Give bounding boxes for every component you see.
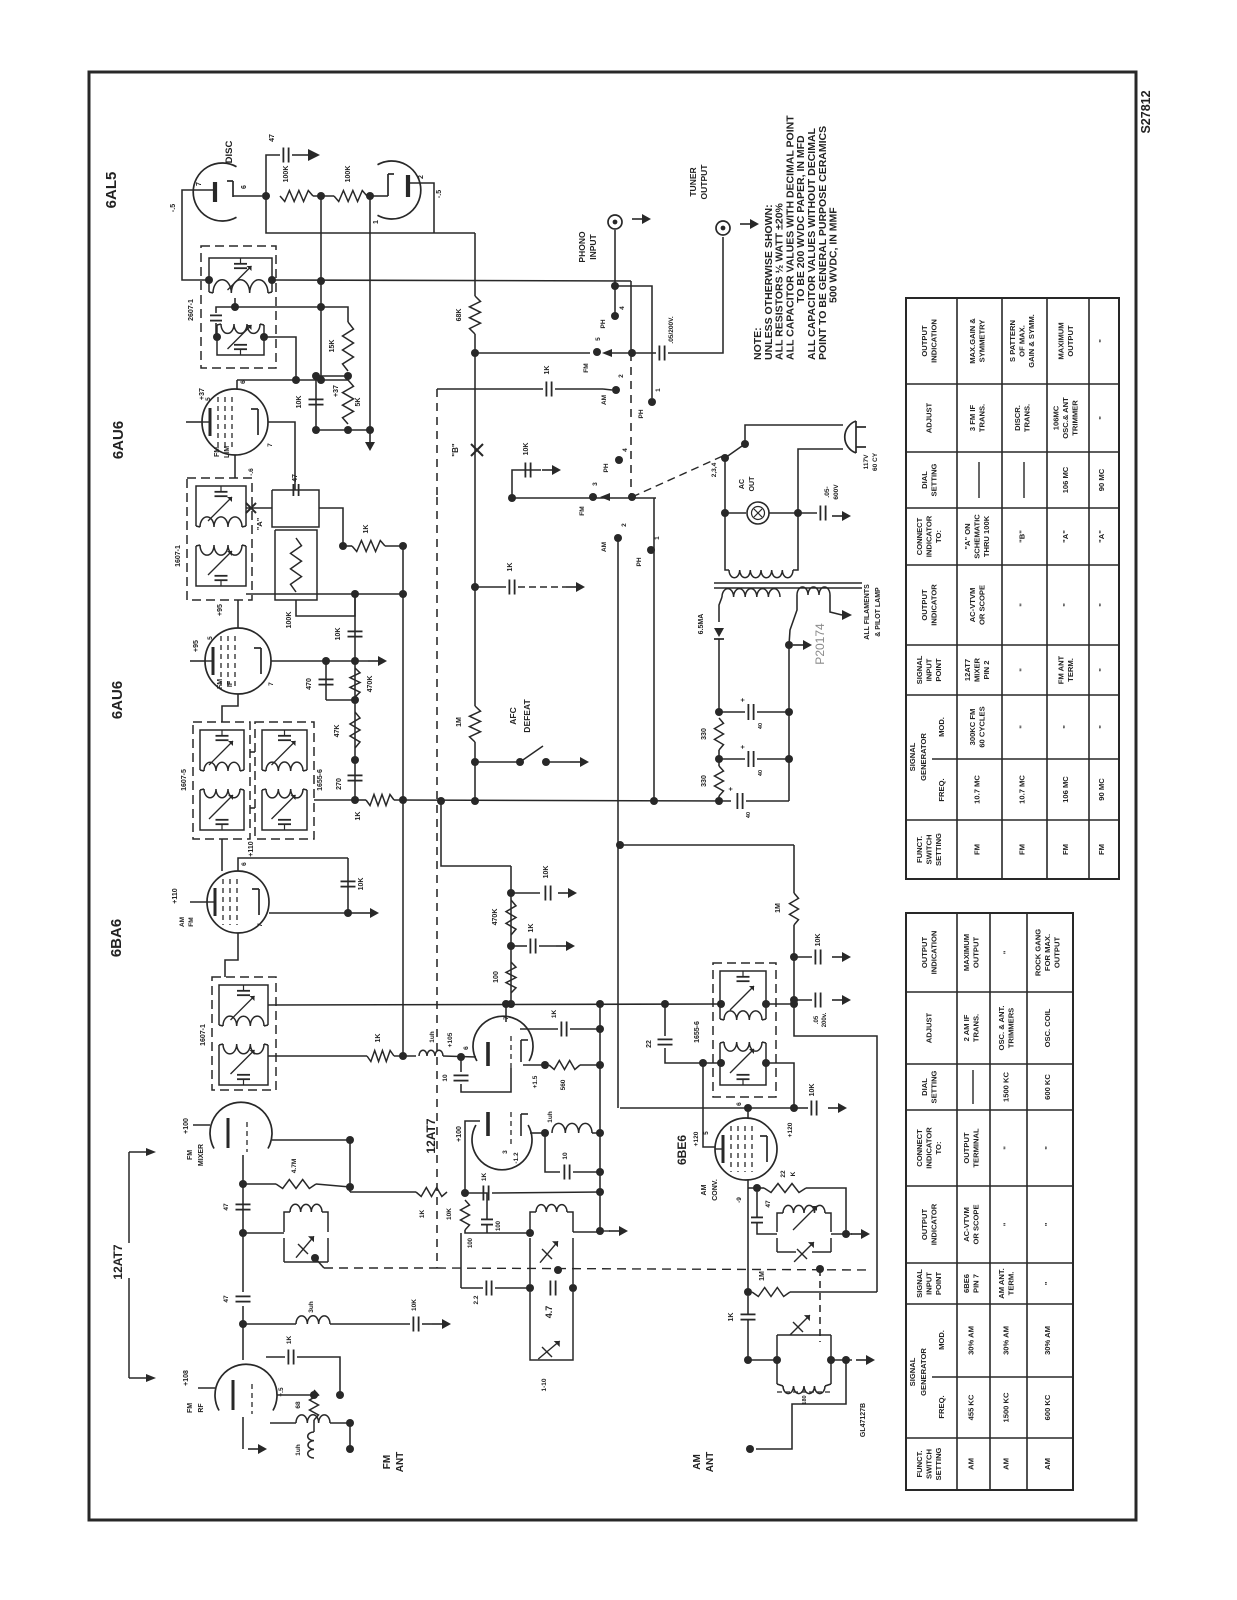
capacitor 1K agc bbox=[545, 382, 547, 397]
svg-text:1607-1: 1607-1 bbox=[200, 1024, 207, 1046]
svg-text:INDICATOR: INDICATOR bbox=[925, 515, 934, 557]
wire plug bottom lead bbox=[798, 449, 843, 513]
svg-text:"A" ON: "A" ON bbox=[963, 523, 972, 549]
svg-text:3 FM IF: 3 FM IF bbox=[968, 405, 977, 432]
svg-text:FM: FM bbox=[217, 679, 224, 689]
svg-text:-9: -9 bbox=[736, 1197, 743, 1203]
svg-text:MIXER: MIXER bbox=[973, 657, 982, 682]
resistor 22K bbox=[764, 1184, 806, 1193]
capacitor 40MF c bbox=[736, 793, 738, 809]
svg-text:": " bbox=[1061, 725, 1070, 729]
wire 22K right bbox=[806, 1188, 846, 1234]
wire grid line y1192 bbox=[350, 1191, 416, 1193]
svg-text:-.6: -.6 bbox=[248, 468, 255, 476]
svg-text:180: 180 bbox=[802, 1395, 808, 1404]
ground arrow 47 bbox=[308, 149, 320, 161]
resistor 1M afc bbox=[470, 706, 481, 742]
transformer filament coil bbox=[797, 587, 830, 595]
ground arrow am osc bbox=[851, 1233, 861, 1235]
ground arrow 05 agc bbox=[832, 999, 842, 1001]
resistor 1K mix bbox=[367, 1051, 394, 1062]
svg-text:6: 6 bbox=[240, 380, 247, 384]
svg-text:.05-: .05- bbox=[824, 486, 831, 497]
svg-text:": " bbox=[1002, 1222, 1011, 1226]
svg-text:INPUT: INPUT bbox=[925, 658, 934, 681]
wire 68K to output bus bbox=[474, 334, 476, 353]
ac switch arm bbox=[725, 446, 742, 458]
wire 1M to switch bbox=[474, 742, 476, 762]
capacitor 1K am bbox=[741, 1313, 756, 1315]
svg-text:FM: FM bbox=[973, 844, 982, 855]
junction bus x403 bbox=[399, 796, 407, 804]
wire 560 to bus bbox=[580, 1064, 600, 1066]
contact AM 2 bank2 bbox=[614, 534, 622, 542]
svg-text:FM: FM bbox=[1018, 844, 1027, 855]
wire 1K am link bbox=[747, 1296, 749, 1314]
wire 6ba6 out down bbox=[225, 933, 238, 977]
ground arrow below 6AL5 bbox=[369, 432, 371, 442]
table FM alignment grid bbox=[906, 298, 1119, 879]
junction grid2 bbox=[753, 1184, 761, 1192]
junction gnd link b bbox=[366, 426, 374, 434]
svg-text:60 CY: 60 CY bbox=[872, 452, 879, 471]
wire 4.7M right bbox=[316, 1184, 350, 1187]
tube 6AU6 FM LIM bbox=[202, 389, 268, 455]
wire center tap line bbox=[235, 298, 321, 307]
junction am osc right bbox=[842, 1230, 850, 1238]
wire rf left pin bbox=[198, 1387, 215, 1389]
junction afc switch bbox=[471, 758, 479, 766]
svg-text:600 KC: 600 KC bbox=[1043, 1074, 1052, 1100]
svg-text:22: 22 bbox=[780, 1170, 787, 1178]
svg-text:DIAL: DIAL bbox=[920, 471, 929, 489]
ac switch contact bbox=[741, 440, 749, 448]
svg-text:FM: FM bbox=[579, 506, 586, 515]
svg-text:200v.: 200v. bbox=[822, 1012, 828, 1027]
svg-text:5: 5 bbox=[703, 1131, 710, 1135]
svg-text:MAXIMUM: MAXIMUM bbox=[962, 934, 971, 971]
transformer 1655-6 am can bbox=[713, 963, 776, 1097]
junction bus x654 bbox=[650, 797, 658, 805]
fm mixer plate bbox=[227, 1118, 230, 1148]
resistor 1K osc grid bbox=[416, 1188, 447, 1197]
svg-text:+: + bbox=[740, 745, 747, 749]
socket AC OUT bbox=[747, 502, 769, 524]
junction agc cross bbox=[790, 1000, 798, 1008]
svg-text:47: 47 bbox=[765, 1200, 772, 1208]
svg-text:1K: 1K bbox=[363, 525, 370, 534]
svg-text:FUNCT.: FUNCT. bbox=[915, 1451, 924, 1478]
svg-text:PIN 7: PIN 7 bbox=[971, 1274, 980, 1293]
svg-text:7: 7 bbox=[267, 443, 274, 447]
ground arrow 10K agc bbox=[832, 956, 842, 958]
resistor 68K bbox=[470, 296, 481, 334]
svg-text:OSC. & ANT.: OSC. & ANT. bbox=[997, 1006, 1006, 1051]
wire 1K cap to gnd bbox=[539, 945, 556, 947]
svg-text:SWITCH: SWITCH bbox=[925, 1449, 934, 1479]
capacitor 270 bbox=[348, 774, 363, 776]
wire 6AL5 left plate lead bbox=[182, 190, 215, 280]
junction ac out left bbox=[721, 509, 729, 517]
capacitor 100 osc bbox=[481, 1218, 493, 1220]
1607-1 am primary tank bbox=[218, 991, 220, 1025]
wire 47 bottom bbox=[757, 1223, 777, 1234]
svg-text:": " bbox=[1043, 1146, 1052, 1150]
svg-text:FM ANT: FM ANT bbox=[1056, 655, 1065, 684]
junction riser mid bbox=[399, 590, 407, 598]
svg-text:-.5: -.5 bbox=[436, 190, 443, 198]
arrow filaments bbox=[842, 610, 852, 620]
wire 47 link bbox=[756, 1192, 758, 1217]
svg-text:106 MC: 106 MC bbox=[1061, 776, 1070, 803]
wire 1655 sec to 1K bbox=[268, 1055, 367, 1057]
gang dashed line bbox=[324, 1267, 437, 1269]
fm rf plate bbox=[232, 1380, 235, 1410]
svg-text:POINT: POINT bbox=[934, 1272, 943, 1296]
svg-text:1K: 1K bbox=[355, 812, 362, 821]
wire fb to bus bbox=[570, 1028, 600, 1030]
coil 3uh bbox=[296, 1316, 330, 1324]
wire 10K rf gnd bbox=[422, 1323, 432, 1325]
capacitor 47 rf bbox=[236, 1295, 251, 1297]
capacitor 10K screen bbox=[810, 1101, 812, 1116]
svg-text:+120: +120 bbox=[787, 1122, 794, 1137]
loopstick dashes bbox=[777, 1391, 831, 1393]
svg-text:AFC: AFC bbox=[508, 707, 518, 724]
resistor 47K bbox=[350, 712, 360, 748]
transformer 2607-1 can bbox=[201, 246, 276, 368]
junction 47M bbox=[346, 1183, 354, 1191]
junction 05 agc bbox=[790, 996, 798, 1004]
junction x600 top bbox=[596, 1000, 604, 1008]
junction bus x441 bbox=[437, 797, 445, 805]
capacitor 1K fb bbox=[560, 1022, 562, 1037]
1655-6 primary tank bbox=[261, 736, 263, 770]
svg-text:5K: 5K bbox=[355, 398, 362, 407]
wire x600 column bbox=[599, 1004, 601, 1231]
12AT7 upper grid bbox=[510, 1036, 512, 1068]
wire agc column b bbox=[793, 957, 795, 1000]
wire x350 column bbox=[349, 1140, 351, 1192]
wire cap a right bbox=[757, 711, 789, 713]
ground arrow osc bbox=[609, 1230, 619, 1232]
svg-text:1655-6: 1655-6 bbox=[317, 769, 324, 791]
wire 6ba6 screen top bbox=[238, 858, 348, 871]
wire 47 cap branch bbox=[266, 155, 280, 196]
svg-text:7: 7 bbox=[196, 182, 203, 186]
junction 470 cap bbox=[322, 657, 330, 665]
svg-text:AM: AM bbox=[601, 542, 608, 552]
wire right cathode lead bbox=[372, 195, 388, 197]
junction 10K tap b bbox=[507, 889, 515, 897]
svg-text:ANT: ANT bbox=[705, 1452, 716, 1473]
junction x600 c bbox=[596, 1129, 604, 1137]
ground dash link bbox=[603, 1230, 610, 1232]
fm rf tank outline bbox=[283, 1238, 285, 1262]
wire between 100K resistors bbox=[313, 195, 334, 197]
wire 05 agc branch bbox=[794, 999, 812, 1001]
node B marker bbox=[471, 444, 483, 456]
ground arrow 10K bank2 bbox=[542, 469, 552, 471]
svg-text:MAX.GAIN &: MAX.GAIN & bbox=[968, 318, 977, 364]
terminal tuner output bbox=[716, 221, 730, 235]
wire 6be6 bottom bbox=[747, 1180, 749, 1292]
junction 5K bottom bbox=[344, 426, 352, 434]
switch FM contact bank2 bbox=[589, 493, 597, 501]
am osc trimmer bbox=[794, 1242, 814, 1262]
rectifier 6.5MA bbox=[714, 628, 724, 637]
wire coil to 10K rf bbox=[330, 1323, 410, 1325]
svg-text:ALL FILAMENTS: ALL FILAMENTS bbox=[864, 584, 871, 640]
svg-text:7: 7 bbox=[257, 923, 264, 927]
svg-text:": " bbox=[1018, 668, 1027, 672]
wire grid to tank bbox=[243, 1232, 284, 1234]
svg-text:": " bbox=[1002, 1146, 1011, 1150]
svg-text:AM: AM bbox=[1043, 1458, 1052, 1470]
svg-text:2: 2 bbox=[621, 523, 628, 527]
svg-text:6AU6: 6AU6 bbox=[109, 681, 126, 719]
12AT7 lower plate bbox=[486, 1112, 490, 1136]
svg-text:DISC: DISC bbox=[224, 141, 235, 164]
wire 6AL5 right plate lead bbox=[408, 183, 434, 233]
svg-text:30% AM: 30% AM bbox=[967, 1326, 976, 1355]
svg-text:1K: 1K bbox=[419, 1210, 426, 1219]
wire ground link bbox=[316, 429, 370, 431]
wire mixer grid cont bbox=[242, 1233, 244, 1292]
svg-text:6: 6 bbox=[463, 1046, 470, 1050]
svg-text:-1.2: -1.2 bbox=[513, 1152, 520, 1164]
svg-text:TUNER: TUNER bbox=[688, 167, 698, 196]
junction plate top bbox=[502, 1000, 510, 1008]
wire grid2 link bbox=[748, 1187, 764, 1189]
6AL5 left cathode bbox=[232, 181, 234, 197]
junction heater ct bbox=[785, 641, 793, 649]
svg-text:POINT: POINT bbox=[934, 658, 943, 682]
wire phono to PH1 bbox=[615, 286, 652, 398]
svg-text:"A": "A" bbox=[1061, 530, 1070, 543]
wire AM contact to 1K cap bbox=[603, 389, 612, 390]
junction main riser top bbox=[399, 542, 407, 550]
resistor 100K lim bbox=[291, 538, 302, 592]
wire disc out bus bbox=[272, 280, 631, 281]
svg-text:470: 470 bbox=[306, 678, 313, 690]
resistor 100K second bbox=[334, 191, 367, 202]
resistor 68 bbox=[310, 1390, 319, 1420]
transformer 1607-1 am can bbox=[212, 977, 276, 1090]
svg-text:5: 5 bbox=[205, 397, 212, 401]
wire cap a left bbox=[719, 711, 745, 713]
1607-5 secondary tank bbox=[199, 790, 201, 824]
svg-text:330: 330 bbox=[701, 728, 708, 740]
svg-text:1607-1: 1607-1 bbox=[175, 545, 182, 567]
svg-text:": " bbox=[1002, 950, 1011, 954]
svg-text:SIGNAL: SIGNAL bbox=[908, 742, 917, 771]
wire mixer cathode down bbox=[242, 1155, 244, 1233]
svg-text:68K: 68K bbox=[456, 309, 463, 322]
svg-text:ADJUST: ADJUST bbox=[925, 402, 934, 433]
junction between 100K bbox=[317, 192, 325, 200]
svg-text:INDICATOR: INDICATOR bbox=[925, 1127, 934, 1169]
junction 4.7M left bbox=[239, 1180, 247, 1188]
svg-text:1M: 1M bbox=[456, 717, 463, 727]
wire sec left down bbox=[719, 597, 722, 622]
terminal phono input bbox=[608, 215, 622, 229]
ground arrow fmif bbox=[368, 660, 378, 662]
junction am if in bbox=[717, 1000, 725, 1008]
contact PH 1 bank2 bbox=[647, 546, 655, 554]
svg-text:SETTING: SETTING bbox=[929, 463, 938, 496]
svg-text:1K: 1K bbox=[286, 1336, 293, 1345]
wire fmif to cans bbox=[222, 694, 238, 722]
1655-6 am secondary tank bbox=[719, 1043, 721, 1079]
svg-text:300KC FM: 300KC FM bbox=[968, 709, 977, 746]
svg-text:10K: 10K bbox=[411, 1299, 418, 1311]
wire 6ba6 left pin bbox=[190, 901, 207, 903]
svg-text:1uh: 1uh bbox=[295, 1444, 302, 1456]
junction 10K agc bbox=[790, 953, 798, 961]
wire 1K cap branch bbox=[511, 945, 527, 947]
wire phono jack down bbox=[614, 230, 616, 316]
wire disc to switch riser bbox=[630, 281, 632, 353]
wire lim plate out bbox=[268, 422, 295, 490]
svg-text:1K: 1K bbox=[528, 924, 535, 933]
svg-text:CONNECT: CONNECT bbox=[915, 1129, 924, 1167]
resistor 100K first bbox=[280, 191, 313, 202]
svg-text:1K: 1K bbox=[375, 1034, 382, 1043]
svg-text:FOR MAX.: FOR MAX. bbox=[1043, 934, 1052, 971]
svg-text:+: + bbox=[740, 698, 747, 702]
junction bbox=[471, 349, 479, 357]
capacitor 1K rf bbox=[287, 1350, 289, 1365]
wire rf plate line bbox=[243, 1323, 296, 1325]
wire cans link bottom bbox=[250, 807, 255, 809]
junction mid tank bbox=[317, 303, 325, 311]
wire 1K am bottom bbox=[747, 1320, 749, 1360]
svg-text:FM: FM bbox=[214, 447, 221, 457]
svg-text:4: 4 bbox=[622, 448, 629, 452]
svg-text:INPUT: INPUT bbox=[925, 1272, 934, 1295]
svg-text:+95: +95 bbox=[193, 640, 200, 652]
wire 1M to 10K bbox=[793, 925, 795, 957]
svg-text:OUTPUT: OUTPUT bbox=[920, 937, 929, 969]
wire primary right bbox=[793, 513, 798, 570]
svg-text:1M: 1M bbox=[775, 903, 782, 913]
svg-text:INDICATION: INDICATION bbox=[929, 931, 938, 975]
svg-text:-.5: -.5 bbox=[170, 204, 177, 212]
svg-text:47: 47 bbox=[223, 1295, 230, 1303]
svg-text:6BE6: 6BE6 bbox=[962, 1274, 971, 1293]
svg-text:TO:: TO: bbox=[934, 1142, 943, 1155]
contact AM 2 bank1 bbox=[612, 386, 620, 394]
wire B vertical bbox=[474, 353, 476, 587]
wire B+ bus long bbox=[394, 800, 731, 801]
svg-text:OUTPUT: OUTPUT bbox=[920, 1209, 929, 1241]
svg-text:1K: 1K bbox=[544, 366, 551, 375]
wire B+ bus left bbox=[355, 799, 366, 801]
junction 68 right bbox=[336, 1391, 344, 1399]
fm osc tank coil bbox=[536, 1205, 567, 1212]
fm rf tank trimmer bbox=[296, 1236, 314, 1257]
svg-text:": " bbox=[1097, 668, 1106, 672]
svg-text:40: 40 bbox=[758, 770, 764, 776]
svg-text:2607-1: 2607-1 bbox=[188, 299, 195, 321]
svg-text:90 MC: 90 MC bbox=[1097, 778, 1106, 801]
junction 470K bbox=[351, 657, 359, 665]
wire afc switch out bbox=[546, 761, 570, 763]
wire 1K rf right bbox=[297, 1357, 340, 1395]
svg-text:+100: +100 bbox=[456, 1126, 463, 1142]
svg-text:OUTPUT: OUTPUT bbox=[1053, 937, 1062, 969]
svg-text:SETTING: SETTING bbox=[934, 833, 943, 866]
junction x600 f bbox=[596, 1227, 604, 1235]
tube 6BA6 bbox=[207, 871, 269, 933]
junction 68 top bbox=[310, 1391, 318, 1399]
junction mixer grid bbox=[239, 1229, 247, 1237]
wire 1M am right bbox=[790, 1291, 877, 1293]
svg-text:FREQ.: FREQ. bbox=[937, 1395, 946, 1418]
capacitor .05-600V bbox=[819, 506, 821, 521]
junction filter 1 bbox=[715, 708, 723, 716]
wire plate fb bbox=[520, 1028, 558, 1030]
svg-text:10K: 10K bbox=[296, 396, 303, 409]
svg-text:FREQ.: FREQ. bbox=[937, 778, 946, 801]
wire 6ba6 plate link bbox=[269, 912, 348, 914]
svg-text:6BA6: 6BA6 bbox=[108, 919, 125, 957]
svg-text:1500 KC: 1500 KC bbox=[1002, 1392, 1011, 1422]
tube 6BE6 bbox=[715, 1118, 777, 1180]
svg-text:47: 47 bbox=[269, 134, 276, 142]
junction rf trimmer tap bbox=[311, 1254, 319, 1262]
disc transformer secondary tank bbox=[216, 325, 218, 349]
svg-text:470K: 470K bbox=[492, 909, 499, 926]
wire coil to ant bbox=[330, 1422, 350, 1424]
svg-text:1M: 1M bbox=[759, 1271, 766, 1281]
wire 100K junction riser bbox=[320, 196, 322, 380]
svg-text:1607-5: 1607-5 bbox=[181, 769, 188, 791]
svg-text:FM: FM bbox=[382, 1455, 393, 1469]
am osc tank coil bbox=[783, 1205, 825, 1213]
capacitor 10K rf bbox=[412, 1317, 414, 1332]
resistor 100K box bbox=[275, 530, 317, 600]
wire to x600 bottom bbox=[492, 1192, 600, 1193]
ground arrow afc cap bbox=[566, 586, 576, 588]
transformer 1607-5 can bbox=[193, 722, 250, 839]
wire 1K to riser bbox=[394, 1055, 416, 1057]
svg-text:47: 47 bbox=[292, 474, 299, 482]
tube 6AL5 right diode section bbox=[378, 161, 421, 219]
svg-text:DISCR.: DISCR. bbox=[1013, 405, 1022, 431]
wire cap b right bbox=[757, 758, 789, 760]
junction cap a bbox=[785, 708, 793, 716]
wire cap to AM contact bbox=[555, 388, 603, 390]
capacitor 1K grid bbox=[482, 1186, 484, 1201]
wire 22 bottom bbox=[665, 1048, 721, 1063]
table AM alignment grid bbox=[906, 913, 1073, 1490]
ground arrow heater bbox=[793, 644, 803, 646]
resistor 4.7M bbox=[276, 1180, 316, 1189]
am osc tank outline bbox=[776, 1238, 778, 1252]
svg-text:& PILOT LAMP: & PILOT LAMP bbox=[875, 587, 882, 637]
svg-text:+105: +105 bbox=[447, 1032, 454, 1047]
svg-text:TRANS.: TRANS. bbox=[977, 404, 986, 432]
svg-text:47K: 47K bbox=[334, 725, 341, 738]
junction tank left top bbox=[526, 1229, 534, 1237]
coil 1uh osc bbox=[552, 1123, 592, 1133]
svg-text:S PATTERN: S PATTERN bbox=[1008, 320, 1017, 362]
wire 100 osc link bbox=[465, 1193, 487, 1219]
svg-text:": " bbox=[1097, 339, 1106, 343]
svg-text:FM: FM bbox=[187, 1403, 194, 1413]
